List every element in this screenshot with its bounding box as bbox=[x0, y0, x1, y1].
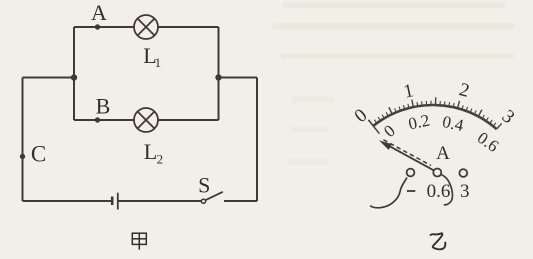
svg-text:3: 3 bbox=[460, 181, 470, 202]
wire battery to switch bbox=[118, 200, 201, 202]
needle dashed ghost bbox=[384, 140, 432, 166]
ammeter scale arc bbox=[373, 105, 496, 129]
node A bbox=[95, 24, 100, 29]
label yi (meter) bbox=[431, 233, 446, 249]
wire right inner vertical bbox=[218, 27, 220, 120]
terminal minus bbox=[407, 169, 415, 177]
wire middle rail left (B branch) bbox=[74, 119, 134, 121]
wire left inner vertical bbox=[73, 27, 75, 120]
wire lead right bbox=[441, 175, 453, 205]
svg-text:C: C bbox=[31, 142, 46, 167]
wire left outer vertical bbox=[22, 78, 24, 202]
svg-text:A: A bbox=[436, 143, 450, 164]
terminal 0.6 bbox=[433, 169, 441, 177]
label minus bbox=[407, 190, 415, 192]
wire top rail left (A branch) bbox=[74, 26, 134, 28]
wire bottom left to battery bbox=[23, 200, 113, 202]
needle arrowhead bbox=[379, 140, 392, 150]
wire switch to bottom right bbox=[224, 200, 257, 202]
lamp L2 bbox=[134, 108, 158, 132]
ammeter tick marks bbox=[369, 97, 502, 129]
svg-text:0.6: 0.6 bbox=[427, 181, 451, 202]
svg-text:1: 1 bbox=[155, 55, 162, 70]
wire middle rail right bbox=[158, 119, 219, 121]
wire right outer vertical bbox=[256, 78, 258, 202]
battery negative plate bbox=[111, 197, 114, 206]
switch S contact bbox=[201, 199, 205, 203]
svg-text:S: S bbox=[198, 172, 210, 197]
label jia (circuit) bbox=[132, 233, 146, 249]
svg-text:A: A bbox=[91, 0, 107, 25]
switch S lever bbox=[206, 192, 223, 200]
zero tick extended inward bbox=[369, 120, 380, 134]
svg-text:L: L bbox=[144, 139, 157, 164]
lamp L1 bbox=[134, 15, 158, 39]
junction dot left bbox=[71, 74, 77, 80]
node B bbox=[95, 117, 100, 122]
needle bbox=[390, 146, 437, 172]
wire left junction to outer bbox=[23, 77, 75, 79]
junction dot right bbox=[215, 74, 221, 80]
svg-text:2: 2 bbox=[157, 151, 164, 166]
wire top rail right bbox=[158, 26, 219, 28]
wire right junction to outer bbox=[219, 77, 258, 79]
wire lead left bbox=[370, 178, 407, 208]
node C bbox=[20, 154, 25, 159]
terminal 3 bbox=[459, 169, 467, 177]
battery positive plate bbox=[117, 193, 119, 210]
svg-text:B: B bbox=[96, 93, 111, 118]
